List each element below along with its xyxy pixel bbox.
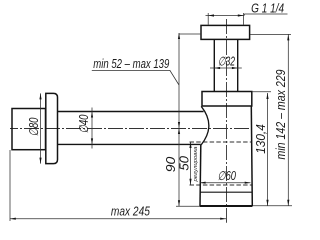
body right edge	[251, 106, 252, 206]
svg-text:min 142 – max 229: min 142 – max 229	[274, 69, 288, 159]
svg-text:90: 90	[164, 157, 178, 173]
d60 dimension line	[200, 182, 251, 184]
svg-text:∅32: ∅32	[218, 54, 235, 68]
svg-text:G 1 1/4: G 1 1/4	[251, 2, 284, 16]
svg-text:130,4: 130,4	[254, 124, 268, 154]
dashed line lower adjustment position	[190, 184, 253, 186]
d32 arrow left	[214, 67, 220, 69]
130,4 dimension line	[267, 93, 269, 206]
svg-text:∅40: ∅40	[77, 114, 91, 133]
d40 dimension line	[91, 108, 93, 149]
extension line at cup bottom left	[176, 205, 200, 207]
lower nut	[202, 92, 252, 107]
G 1 1/4 extension lines	[208, 13, 243, 25]
svg-text:регулировка: регулировка	[193, 146, 199, 182]
svg-text:∅80: ∅80	[27, 117, 41, 136]
d40 arrow down	[91, 138, 93, 144]
G 1 1/4 arrow left	[208, 14, 214, 16]
extension line lower nut top right	[252, 91, 271, 93]
extension line stub bottom left	[9, 150, 11, 221]
centerline vertical body axis	[226, 19, 228, 223]
svg-text:50: 50	[177, 156, 191, 171]
left dimension line min52-max139 / 90 shared vertical	[178, 33, 180, 206]
d80 dimension line	[40, 93, 42, 163]
d40 arrow up	[91, 112, 93, 118]
centerline horizontal pipe axis	[10, 128, 252, 130]
arrow down to centerline	[178, 122, 180, 128]
130,4 arrow down	[266, 200, 268, 206]
min 142 - max 229 dimension line	[287, 34, 289, 205]
min 52 - max 139 underline and leader	[92, 70, 179, 85]
G 1 1/4 dimension line and text shelf	[206, 14, 288, 16]
upper nut G 1 1/4	[201, 25, 250, 39]
G 1 1/4 arrow right	[238, 14, 244, 16]
50 arrow up	[189, 142, 191, 148]
130,4 arrow up	[266, 93, 268, 99]
d60 arrow right	[245, 182, 251, 184]
d60 arrow left	[200, 182, 206, 184]
body bottom edge	[200, 205, 253, 207]
min142 arrow up	[287, 34, 289, 40]
d32 dimension line	[210, 67, 242, 69]
wall pipe stub	[12, 109, 46, 150]
body left edge	[199, 145, 202, 206]
pipe d40 top edge	[58, 111, 204, 113]
d32 arrow right	[232, 67, 238, 69]
wall flange d80	[46, 93, 58, 163]
50 arrow down	[189, 179, 191, 185]
d80 arrow down	[39, 158, 41, 164]
pipe d40 bottom edge	[58, 143, 201, 145]
max245 arrow left	[10, 218, 16, 220]
extension line body bottom right	[253, 205, 292, 207]
svg-text:max 245: max 245	[111, 205, 150, 219]
body intersection arc	[201, 106, 209, 145]
d80 arrow up	[39, 93, 41, 99]
pipe d32 outline	[214, 39, 237, 91]
max 245 dimension line	[10, 218, 226, 220]
body cup ring line	[200, 191, 252, 193]
arrow up at y33	[178, 33, 180, 39]
max245 arrow right	[220, 218, 226, 220]
arrow down at cup bottom	[178, 200, 180, 206]
extension line from nut left	[179, 33, 201, 35]
extension line upper nut right	[250, 33, 291, 35]
svg-text:min 52 – max 139: min 52 – max 139	[93, 57, 169, 71]
arrow up from below centerline	[178, 128, 180, 134]
svg-text:∅60: ∅60	[217, 169, 236, 183]
50 dimension line	[190, 142, 192, 185]
min142 arrow down	[287, 200, 289, 206]
dashed line upper adjustment position	[190, 141, 252, 143]
